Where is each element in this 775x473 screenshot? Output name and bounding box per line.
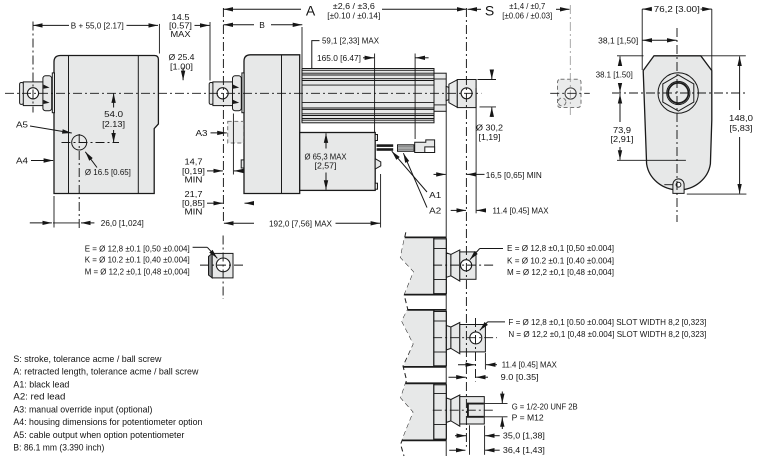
motor end bump <box>375 159 381 169</box>
detail2 tube piece <box>402 310 434 367</box>
tube rib line 12 <box>302 118 434 120</box>
detail2 dim 11.4 left arrow <box>458 364 475 366</box>
dia 30.2 upper arrow <box>491 70 493 80</box>
detail2 cap <box>434 312 447 366</box>
tube rib line 6 <box>302 84 434 86</box>
dim 165 left arrow <box>363 57 374 59</box>
svg-text:Ø 16.5 [0.65]: Ø 16.5 [0.65] <box>85 167 131 177</box>
detail1 cap line2 <box>434 279 447 281</box>
gearbox housing cover line <box>281 55 283 194</box>
detail2 tube top edge <box>408 309 447 311</box>
svg-text:[2,57]: [2,57] <box>315 161 337 171</box>
svg-text:59,1 [2,33] MAX: 59,1 [2,33] MAX <box>322 36 379 46</box>
tube rib line 11 <box>302 115 434 117</box>
leader 59.1 <box>312 41 320 69</box>
dim A left segment <box>223 8 301 10</box>
detail1 tube piece <box>401 237 434 294</box>
detail2 cap line2 <box>434 351 447 353</box>
detail1 rod cone <box>451 250 460 281</box>
dim 36.4 right arrow <box>485 449 500 451</box>
dia 65.3 lower segment <box>325 173 327 190</box>
svg-text:A4: housing dimensions for pot: A4: housing dimensions for potentiometer… <box>13 417 202 427</box>
dim 192 extension line right <box>380 174 382 228</box>
left rod end cap <box>20 83 24 105</box>
front thread circle outer <box>667 81 690 104</box>
dim 38.1h line <box>643 39 677 41</box>
tube front cap <box>434 73 446 111</box>
main front rod end hole <box>461 88 472 99</box>
dim G upper extension <box>485 403 508 405</box>
dim 26.0 dimension line <box>53 222 79 224</box>
break zigzag dashed line <box>401 232 414 456</box>
dim 26.0 right arrow <box>81 222 94 224</box>
picto horizontal center line <box>200 264 245 266</box>
svg-text:±2,6 / ±3,6: ±2,6 / ±3,6 <box>333 1 375 11</box>
svg-text:A4: A4 <box>16 156 28 166</box>
picto flange dark edge <box>209 253 213 278</box>
dim 26.0 left arrow <box>30 222 52 224</box>
detail3 horizontal center line <box>433 409 496 411</box>
housing left screw tab <box>241 160 244 168</box>
detail2 dim 9.0 right arrow <box>476 376 488 378</box>
left view housing body <box>54 56 158 194</box>
ghost horizontal center line <box>550 92 590 94</box>
A5 circle horizontal center line <box>62 142 120 144</box>
svg-text:[1,19]: [1,19] <box>479 132 501 142</box>
svg-text:16,5 [0,65] MIN: 16,5 [0,65] MIN <box>486 170 542 180</box>
svg-text:A3: manual override input (opt: A3: manual override input (optional) <box>13 404 152 414</box>
svg-text:MIN: MIN <box>185 175 203 185</box>
picto hole <box>216 258 230 272</box>
tube rib line 13 <box>302 119 434 121</box>
main hex nut facet wedge upper <box>233 85 239 89</box>
left rod end hole <box>27 88 38 99</box>
detail1 hole <box>461 260 472 271</box>
tube end face extension line <box>445 111 447 456</box>
front top extension line left <box>617 55 644 57</box>
A3 manual override dashed box <box>228 121 244 143</box>
A5 leader <box>30 126 72 133</box>
main rod end cap <box>209 83 213 105</box>
motor lead black wire upper <box>377 144 394 147</box>
main rod end hole <box>217 88 228 99</box>
svg-text:A2: A2 <box>429 205 441 215</box>
front hex boss circle <box>658 73 698 113</box>
svg-text:[1.00]: [1.00] <box>170 61 193 71</box>
tube rib line 5 <box>302 80 434 82</box>
tube rib line 8 <box>302 107 434 109</box>
dia 30.2 lower extension <box>480 106 497 108</box>
svg-text:35,0 [1,38]: 35,0 [1,38] <box>503 431 545 441</box>
front horizontal center line <box>612 92 745 94</box>
dim 11.4 extension line <box>475 88 477 213</box>
main rod end hex nut <box>233 76 242 111</box>
detail2 hole <box>470 332 482 344</box>
dim 76.2 right segment <box>701 8 712 10</box>
dim 192 left arrow <box>224 222 254 224</box>
detail2 dim 11.4 right arrow <box>486 364 497 366</box>
front thread circle inner <box>668 83 688 103</box>
A1 leader <box>392 151 427 192</box>
svg-text:N = Ø 12,2 ±0,1 [0,48 ±0.004]: N = Ø 12,2 ±0,1 [0,48 ±0.004] SLOT WIDTH… <box>508 329 706 339</box>
detail1 cap <box>434 239 447 294</box>
dim 148 lower segment <box>739 137 741 194</box>
detail2 dim 9.0 left arrow <box>449 376 466 378</box>
dim 16.5 right arrow <box>467 173 485 175</box>
left view cover parting line 2 <box>137 56 139 194</box>
tube rib line 7 <box>302 102 434 104</box>
ghost extended rod end block dashed <box>558 79 582 107</box>
dim 148 upper segment <box>739 56 741 110</box>
dim 26.0 body edge extension <box>53 196 55 228</box>
dim 76.2 left segment <box>642 8 652 10</box>
left rod seal plate <box>52 73 54 113</box>
dim 165 extension line right <box>414 54 416 140</box>
A3 arrow <box>211 132 227 134</box>
front view body outline <box>643 56 712 190</box>
detail3 cap <box>434 385 447 439</box>
dim B+55.0 line left segment <box>33 24 69 26</box>
svg-text:11.4 [0.45] MAX: 11.4 [0.45] MAX <box>493 205 549 215</box>
svg-text:36,4 [1,43]: 36,4 [1,43] <box>503 445 545 455</box>
dim 165 extension line left <box>374 54 376 133</box>
svg-text:38.1 [1.50]: 38.1 [1.50] <box>596 70 633 80</box>
svg-text:K = Ø 10.2 ±0.1 [0.40 ±0.004]: K = Ø 10.2 ±0.1 [0.40 ±0.004] <box>507 256 614 266</box>
dim 38.1v upper segment <box>619 56 621 65</box>
svg-text:P = M12: P = M12 <box>512 412 544 422</box>
detail1 tube top edge <box>405 236 447 238</box>
housing to tube bridge fill <box>300 69 302 122</box>
main hex nut facet wedge lower <box>233 100 239 104</box>
svg-text:MIN: MIN <box>185 206 203 216</box>
front vertical center line <box>676 28 678 222</box>
tube rib line 1 <box>302 69 434 71</box>
motor tab lower <box>375 183 377 189</box>
detail3 rod cone <box>451 395 460 426</box>
dia 30.2 lower arrow <box>491 107 493 117</box>
svg-text:192,0 [7,56] MAX: 192,0 [7,56] MAX <box>269 218 332 228</box>
dim 14.5 extension line <box>209 22 211 81</box>
dim 192 right segment <box>336 222 381 224</box>
tube front cap line 1 <box>434 78 446 80</box>
detail1 cap line1 <box>434 248 447 250</box>
detail1 leader arrow <box>470 249 480 260</box>
main rod seal plate <box>242 73 244 113</box>
dim 76.2 right extension <box>711 9 713 70</box>
left rod end hex nut <box>43 76 52 111</box>
detail3 tube top edge <box>406 382 447 384</box>
svg-text:MAX: MAX <box>171 29 191 39</box>
dim S right arrow <box>556 8 570 10</box>
front lug hole <box>676 182 681 187</box>
dim B right segment <box>271 24 302 26</box>
harness stripe line 2 <box>398 148 415 150</box>
tube rib line 2 <box>302 72 434 74</box>
svg-text:E = Ø 12,8 ±0,1 [0,50 ±0.004]: E = Ø 12,8 ±0,1 [0,50 ±0.004] <box>507 243 614 253</box>
dim G lower arrow <box>501 417 503 429</box>
svg-text:F = Ø 12,8 ±0,1 [0.50 ±0.004]: F = Ø 12,8 ±0,1 [0.50 ±0.004] SLOT WIDTH… <box>508 317 706 327</box>
svg-text:S: stroke, tolerance acme / ba: S: stroke, tolerance acme / ball screw <box>13 354 161 364</box>
detail3 face extension line <box>484 426 486 455</box>
left rod end vertical center line <box>32 22 34 113</box>
dim 76.2 left extension <box>641 9 643 70</box>
svg-text:S: S <box>485 3 494 19</box>
detail2 leader horizontal <box>488 321 505 323</box>
svg-text:Ø 30,2: Ø 30,2 <box>476 123 503 133</box>
dim B extension line at tube start <box>301 27 303 68</box>
svg-text:G = 1/2-20 UNF 2B: G = 1/2-20 UNF 2B <box>512 401 578 411</box>
motor body <box>300 133 376 191</box>
svg-text:A1: A1 <box>429 190 441 200</box>
svg-text:K = Ø 10.2 ±0.1 [0,40 ±0.004]: K = Ø 10.2 ±0.1 [0,40 ±0.004] <box>85 255 190 265</box>
left hex nut facet wedge lower <box>43 100 49 104</box>
main horizontal center line <box>5 92 481 94</box>
dim 14.7 left arrow <box>207 170 223 172</box>
front hex nut <box>663 75 694 111</box>
dim 11.4 right arrow <box>477 209 486 211</box>
detail2 cap line1 <box>434 320 447 322</box>
motor tab upper <box>375 135 377 141</box>
detail1 horizontal center line <box>433 264 494 266</box>
detail2 block face extension <box>484 353 486 370</box>
tube rib line 4 <box>302 78 434 80</box>
detail3 rod neck <box>446 398 451 422</box>
dim 38.1v lower segment <box>619 84 621 92</box>
detail3 cap line1 <box>434 393 447 395</box>
svg-text:±1,4 / ±0,7: ±1,4 / ±0,7 <box>509 1 545 11</box>
dim 14.7 extension line <box>232 114 234 175</box>
detail1 tube bottom edge <box>404 294 446 296</box>
A2 leader <box>403 153 427 207</box>
svg-text:B: 86.1 mm (3.390 inch): B: 86.1 mm (3.390 inch) <box>13 442 104 452</box>
dim 16.5 left arrow <box>434 173 446 175</box>
svg-text:A: retracted length, tolerance: A: retracted length, tolerance acme / ba… <box>13 367 198 377</box>
svg-text:A5: cable output when option p: A5: cable output when option potentiomet… <box>13 430 184 440</box>
dim 36.4 left arrow <box>449 449 465 451</box>
motor lead black wire lower <box>377 148 394 151</box>
detail2 tube end line <box>433 310 435 367</box>
main rod end block <box>213 82 233 106</box>
main rod center line vertical <box>222 8 224 223</box>
dim 21.7 right arrow <box>245 202 251 204</box>
svg-text:M = Ø 12,2 ±0,1 [0,48 ±0,004]: M = Ø 12,2 ±0,1 [0,48 ±0,004] <box>85 266 190 276</box>
svg-text:[2,91]: [2,91] <box>611 134 634 144</box>
detail2 tube bottom edge <box>403 366 446 368</box>
dim 73.9 upper segment <box>619 94 621 122</box>
gearbox housing <box>244 55 300 194</box>
svg-text:26,0 [1,024]: 26,0 [1,024] <box>101 218 144 228</box>
picto leader horizontal <box>193 246 208 248</box>
dim 35.0 left arrow <box>455 435 466 437</box>
dim B+55.0 line right segment <box>127 24 159 26</box>
dim B left segment <box>223 24 254 26</box>
detail1 tube end line <box>433 237 435 294</box>
left view cover parting line 1 <box>68 56 70 194</box>
picto rod end square <box>212 253 233 278</box>
dim 165 right arrow <box>416 57 429 59</box>
tube rib line 3 <box>302 74 434 76</box>
A5 circle vertical center line <box>78 134 80 228</box>
dim G lower extension <box>485 416 508 418</box>
detail3 tube end line <box>433 383 435 440</box>
dim B+55.0 right extension line <box>158 24 160 54</box>
svg-text:38,1 [1,50]: 38,1 [1,50] <box>598 35 638 45</box>
front rod end center line vertical <box>465 8 467 447</box>
dim G upper arrow <box>501 392 503 404</box>
detail2 leader arrow <box>480 322 488 331</box>
detail3 tube piece <box>401 383 434 440</box>
detail3 cap line2 <box>434 424 447 426</box>
detail2 rod neck <box>446 326 451 350</box>
svg-text:E = Ø 12,8 ±0.1 [0,50 ±0.004]: E = Ø 12,8 ±0.1 [0,50 ±0.004] <box>85 244 190 254</box>
detail1 rod neck <box>446 253 451 277</box>
detail3 tube bottom edge <box>402 439 446 441</box>
tube rib line 9 <box>302 109 434 111</box>
svg-text:11.4 [0.45] MAX: 11.4 [0.45] MAX <box>502 360 557 370</box>
svg-text:A2: red lead: A2: red lead <box>13 392 65 402</box>
harness striped wires <box>398 145 415 152</box>
detail3 inner extension line <box>469 425 471 455</box>
detail2 horizontal center line <box>433 337 497 339</box>
dim 11.4 left arrow <box>451 209 466 211</box>
main rod hex <box>449 80 457 108</box>
svg-text:9.0 [0.35]: 9.0 [0.35] <box>501 372 539 382</box>
dia 30.2 upper extension <box>478 79 497 81</box>
dia 65.3 upper segment <box>325 133 327 148</box>
dim 54.0 upper segment <box>113 93 115 107</box>
main front rod end block <box>457 80 476 108</box>
svg-text:[±0.10 / ±0.14]: [±0.10 / ±0.14] <box>327 11 380 21</box>
tube rib line 10 <box>302 113 434 115</box>
harness stripe line 1 <box>398 146 415 148</box>
left hex nut facet wedge upper <box>43 85 49 89</box>
detail2 hole center line vertical <box>475 318 477 382</box>
dim S left arrow <box>468 8 482 10</box>
dim 54.0 lower segment <box>113 130 115 143</box>
detail1 leader horizontal <box>480 248 503 250</box>
svg-text:[5,83]: [5,83] <box>730 123 753 133</box>
svg-text:[±0.06 / ±0.03]: [±0.06 / ±0.03] <box>502 11 552 21</box>
svg-text:148,0: 148,0 <box>729 113 753 123</box>
ghost hex dashed circle <box>558 98 566 106</box>
detail2 rod end block F <box>460 325 486 352</box>
detail2 rod cone <box>451 323 460 354</box>
svg-text:A3: A3 <box>196 128 208 138</box>
ghost vertical center line gray <box>569 5 571 115</box>
main rod neck <box>446 86 449 100</box>
detail1 rod end block E <box>460 252 476 279</box>
picto leader arrow <box>207 247 217 258</box>
svg-text:165.0 [6.47]: 165.0 [6.47] <box>317 53 361 63</box>
svg-text:B: B <box>259 20 265 30</box>
svg-text:A: A <box>306 3 316 19</box>
dim 21.7 left arrow <box>207 202 223 204</box>
outer tube body <box>302 69 434 123</box>
svg-text:54.0: 54.0 <box>104 109 123 119</box>
svg-text:76,2 [3.00]: 76,2 [3.00] <box>654 4 700 14</box>
svg-text:M = Ø 12,2 ±0,1 [0,48 ±0,004]: M = Ø 12,2 ±0,1 [0,48 ±0,004] <box>507 267 614 277</box>
A5 cable hole circle <box>72 135 87 150</box>
dim 73.9 extension line <box>617 159 686 161</box>
leader dia 16.5 arrow <box>85 152 97 168</box>
front lug side line <box>664 184 672 186</box>
picto vertical center line <box>222 236 224 300</box>
left rod end block <box>23 82 43 106</box>
dim 148 top extension <box>701 55 746 57</box>
connector housing <box>415 140 435 153</box>
ghost rod end hole <box>565 88 576 99</box>
tube front cap line 2 <box>434 104 446 106</box>
detail3 thread bore <box>468 404 484 417</box>
A4 arrow <box>31 160 53 162</box>
dim 35.0 right arrow <box>485 435 500 437</box>
dim A right segment <box>382 8 466 10</box>
svg-text:B + 55,0 [2.17]: B + 55,0 [2.17] <box>71 20 124 30</box>
svg-text:A1: black lead: A1: black lead <box>13 379 69 389</box>
svg-text:A5: A5 <box>16 120 28 130</box>
svg-text:[2.13]: [2.13] <box>102 119 125 129</box>
dim 73.9 lower segment <box>619 147 621 160</box>
connector latch white block <box>425 147 435 153</box>
detail3 threaded block <box>460 397 485 424</box>
dia 25.4 arrow <box>182 68 184 81</box>
dim 148 bottom extension <box>687 193 747 195</box>
dim 14.7 right arrow <box>234 170 241 172</box>
front bottom lug <box>673 179 684 193</box>
dim 14.5 arrow <box>195 24 210 26</box>
